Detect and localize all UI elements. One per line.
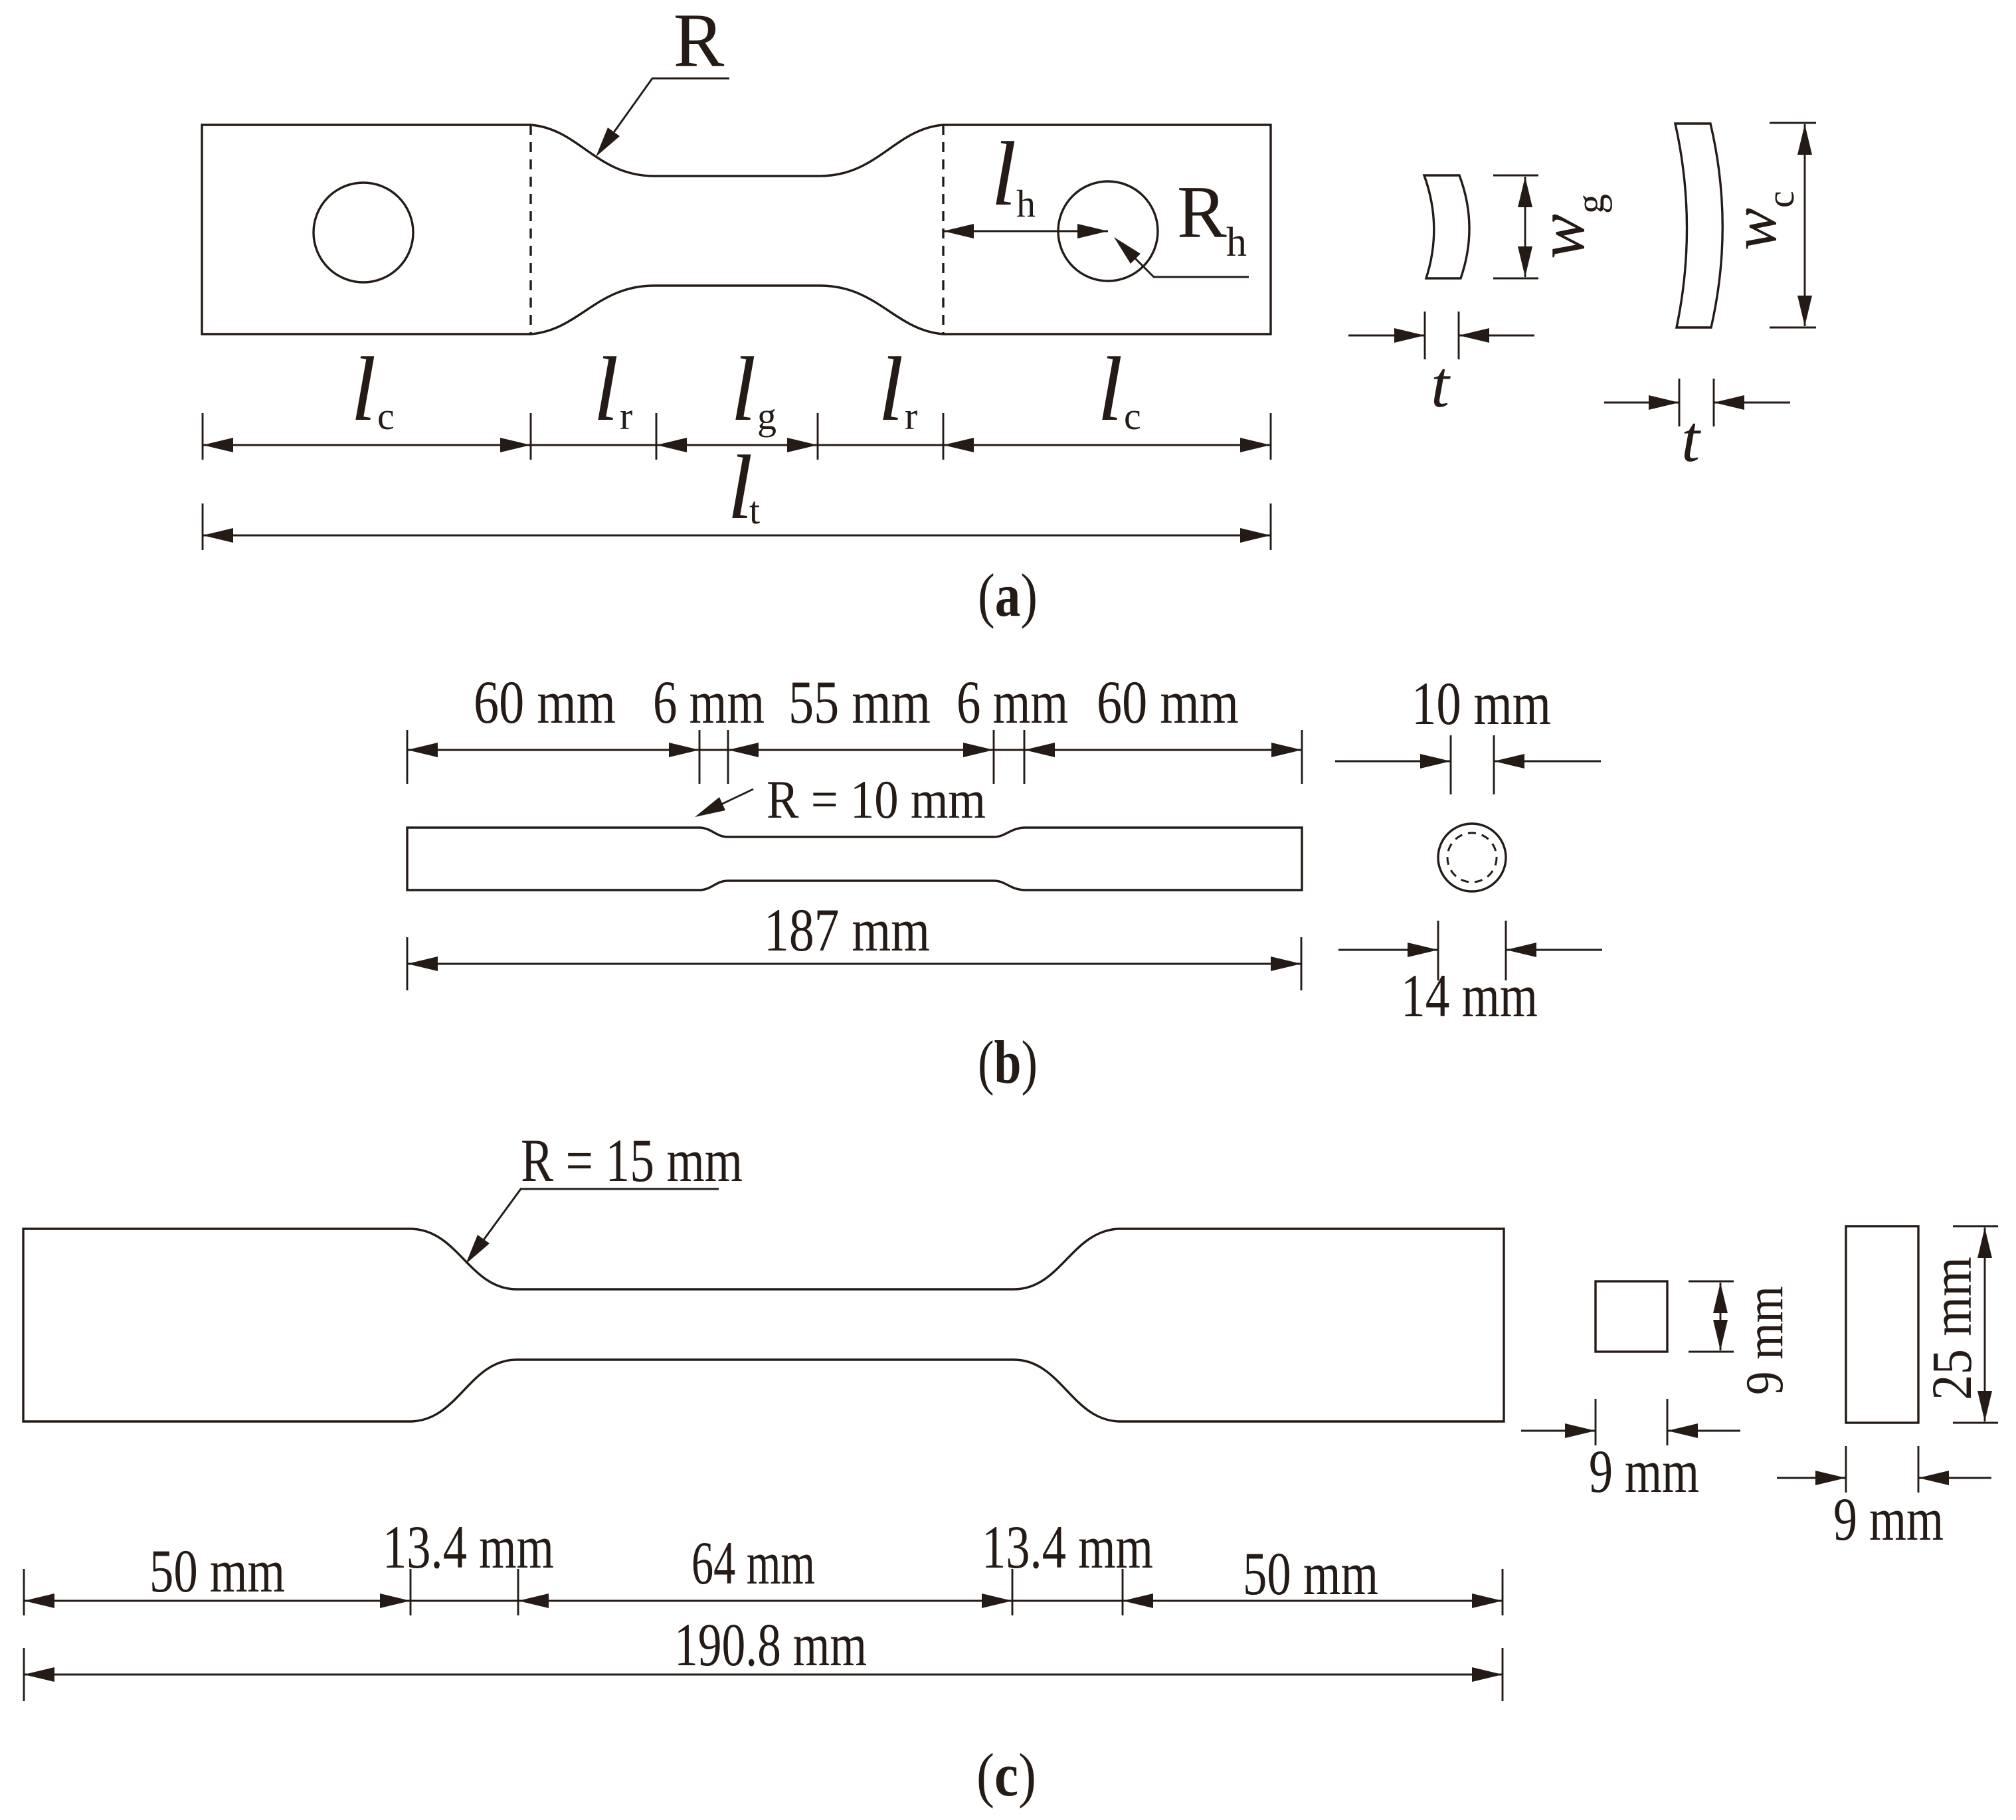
- svg-text:l: l: [731, 338, 756, 440]
- svg-text:9 mm: 9 mm: [1833, 1485, 1944, 1553]
- square gauge cross-section (c): [1596, 1281, 1667, 1352]
- svg-text:50 mm: 50 mm: [149, 1537, 285, 1605]
- tick (b) chain 2: [699, 730, 701, 784]
- tick w_g bottom: [1493, 278, 1538, 280]
- arrowhead l_h right: [1077, 224, 1108, 238]
- tick (c) chain 6: [1502, 1569, 1504, 1615]
- specimen (a) right grip boundary dashed line: [942, 125, 944, 334]
- tick (c) chain 3: [517, 1569, 519, 1615]
- arrowhead l_g right: [787, 438, 818, 452]
- tick (b) chain 6: [1301, 730, 1303, 784]
- svg-text:(b): (b): [978, 1028, 1038, 1096]
- dimension chain line (a): l_c, l_r, l_g, l_r, l_c: [203, 444, 1271, 446]
- arrowhead l_t left: [203, 528, 233, 543]
- svg-text:l: l: [1097, 338, 1123, 440]
- svg-text:c: c: [377, 395, 395, 438]
- tick t-gauge left: [1424, 312, 1426, 359]
- svg-text:9 mm: 9 mm: [1736, 1286, 1794, 1395]
- svg-text:t: t: [749, 489, 760, 532]
- tick 9mm-v bottom: [1689, 1351, 1734, 1353]
- arrowhead l_c right: [500, 438, 531, 452]
- arrowhead l_t right: [1240, 528, 1271, 543]
- leader line for R_h: [1119, 242, 1249, 277]
- arrowhead 9mm-r left: [1815, 1471, 1846, 1485]
- leader line for R = 10 mm: [699, 789, 753, 815]
- svg-text:t: t: [1681, 402, 1701, 476]
- svg-text:60 mm: 60 mm: [1097, 668, 1239, 736]
- arrowhead t-grip left: [1649, 395, 1679, 410]
- tick 14mm left: [1437, 921, 1439, 980]
- dimension 9 mm (rect width): [1777, 1477, 1846, 1479]
- tick 10mm right: [1493, 735, 1495, 794]
- specimen (a) dog-bone outline: [202, 125, 1271, 334]
- leader arrowhead R=10mm: [695, 797, 725, 817]
- arrowhead 64mm right: [982, 1593, 1012, 1608]
- arrowhead 50mm-2 right: [1472, 1593, 1503, 1608]
- arrowhead 60mm right: [669, 743, 699, 757]
- tick (c) chain 1: [23, 1569, 25, 1615]
- svg-text:l: l: [991, 123, 1016, 225]
- dimension t (gauge thickness): [1348, 335, 1425, 337]
- arrowhead 25mm up: [1977, 1228, 1992, 1258]
- arrowhead w_g down: [1518, 246, 1532, 277]
- svg-text:wg: wg: [1524, 194, 1612, 259]
- tick w_g top: [1493, 175, 1538, 177]
- arrowhead 190.8 right: [1472, 1667, 1503, 1682]
- tick 187mm left: [407, 937, 409, 990]
- tick 9mm-h left: [1595, 1399, 1597, 1445]
- leader line for R: [601, 78, 729, 150]
- arrowhead 64mm left: [518, 1593, 549, 1608]
- arrowhead 9mm-v down: [1713, 1320, 1728, 1350]
- arrowhead t-gauge right: [1459, 328, 1489, 343]
- svg-text:190.8 mm: 190.8 mm: [674, 1611, 867, 1679]
- svg-text:50 mm: 50 mm: [1243, 1540, 1378, 1607]
- svg-text:R = 10 mm: R = 10 mm: [767, 769, 986, 830]
- tick t-grip left: [1679, 379, 1681, 426]
- arrowhead l_g left: [656, 438, 687, 452]
- tick 25mm bottom: [1953, 1422, 1998, 1424]
- tick (b) chain 1: [407, 730, 409, 784]
- dimension l_t (total length): [203, 535, 1271, 537]
- tick (b) chain 3: [727, 730, 729, 784]
- tick (a) chain 3: [656, 413, 658, 460]
- dimension 187 mm: [407, 963, 1301, 965]
- tick (b) chain 5: [1024, 730, 1026, 784]
- svg-text:64 mm: 64 mm: [691, 1529, 815, 1597]
- tick 9mm-r right: [1918, 1446, 1920, 1493]
- tick (c) chain 5: [1122, 1569, 1124, 1615]
- tick 190.8 left: [23, 1648, 25, 1701]
- svg-text:13.4 mm: 13.4 mm: [383, 1513, 554, 1581]
- tick 14mm right: [1505, 921, 1507, 980]
- svg-text:9 mm: 9 mm: [1589, 1437, 1699, 1505]
- svg-text:r: r: [620, 395, 632, 438]
- leader arrowhead R: [596, 128, 620, 157]
- svg-text:6 mm: 6 mm: [653, 668, 765, 736]
- tick 9mm-h right: [1667, 1399, 1669, 1445]
- arrowhead 187mm right: [1271, 956, 1301, 971]
- specimen (c) outline: [23, 1229, 1504, 1421]
- svg-text:60 mm: 60 mm: [474, 668, 616, 736]
- svg-text:l: l: [351, 338, 376, 440]
- arrowhead 10mm left: [1420, 754, 1451, 769]
- arrowhead 14mm right: [1506, 943, 1536, 957]
- svg-text:R: R: [674, 0, 725, 82]
- specimen (a) left grip boundary dashed line: [529, 125, 531, 334]
- arrowhead 50mm right: [380, 1593, 411, 1608]
- tick (c) chain 4: [1012, 1569, 1014, 1615]
- dimension t (grip thickness): [1604, 402, 1679, 404]
- arrowhead l_h left: [943, 224, 974, 238]
- arrowhead 9mm-v up: [1713, 1283, 1728, 1313]
- machined gauge dashed inner circle: [1447, 833, 1497, 882]
- arrowhead 55mm left: [728, 743, 759, 757]
- rectangular grip cross-section (c): [1846, 1226, 1918, 1423]
- tick 187mm right: [1301, 937, 1303, 990]
- svg-text:55 mm: 55 mm: [788, 668, 931, 736]
- svg-text:l: l: [878, 338, 903, 440]
- arrowhead 60mm-2 left: [1024, 743, 1055, 757]
- svg-text:h: h: [1016, 182, 1036, 225]
- arrowhead 9mm-h right: [1667, 1423, 1698, 1438]
- tick 9mm-v top: [1689, 1281, 1734, 1283]
- svg-text:187 mm: 187 mm: [764, 896, 930, 964]
- tick w_c bottom: [1770, 327, 1816, 329]
- round bar cross-section (b) outer circle: [1438, 824, 1506, 891]
- svg-text:10 mm: 10 mm: [1412, 670, 1551, 737]
- tick 190.8 right: [1502, 1648, 1504, 1701]
- svg-text:R = 15 mm: R = 15 mm: [521, 1127, 743, 1194]
- svg-text:14 mm: 14 mm: [1401, 962, 1538, 1030]
- tick (a) chain 2: [530, 413, 532, 460]
- svg-text:(c): (c): [976, 1741, 1036, 1809]
- tick t-gauge right: [1458, 312, 1460, 359]
- arrowhead 9mm-r right: [1918, 1471, 1949, 1485]
- arrowhead l_c left: [203, 438, 233, 452]
- arrowhead 60mm left: [407, 743, 438, 757]
- tick l_t right: [1270, 503, 1272, 550]
- arrowhead 14mm left: [1408, 943, 1438, 957]
- leader line for R = 15 mm: [470, 1189, 719, 1258]
- arrowhead 9mm-h left: [1565, 1423, 1596, 1438]
- grip cross-section strip (a): [1675, 124, 1722, 327]
- svg-text:t: t: [1431, 347, 1451, 421]
- tick (a) chain 5: [943, 413, 945, 460]
- svg-text:g: g: [757, 395, 777, 438]
- svg-text:wc: wc: [1718, 191, 1802, 250]
- svg-text:6 mm: 6 mm: [957, 668, 1068, 736]
- tick (b) chain 4: [993, 730, 995, 784]
- tick (a) chain 1: [202, 413, 204, 460]
- arrowhead w_c up: [1797, 124, 1812, 155]
- specimen (b) outline: [407, 828, 1302, 890]
- tick (a) chain 4: [817, 413, 819, 460]
- tick (c) chain 2: [410, 1569, 412, 1615]
- svg-text:l: l: [593, 338, 618, 440]
- dimension chain line (b): 60/6/55/6/60 mm: [407, 749, 1302, 751]
- arrowhead 50mm-2 left: [1123, 1593, 1153, 1608]
- arrowhead t-gauge left: [1394, 328, 1425, 343]
- leader arrowhead R_h: [1114, 237, 1141, 264]
- specimen (a) right pin hole: [1058, 181, 1158, 281]
- dimension 190.8 mm: [24, 1674, 1503, 1676]
- gauge cross-section strip (a): [1424, 175, 1469, 278]
- arrowhead w_g up: [1518, 177, 1532, 207]
- tick 25mm top: [1953, 1226, 1998, 1228]
- dimension 10 mm (gauge dia): [1335, 761, 1451, 763]
- arrowhead 25mm down: [1977, 1391, 1992, 1421]
- dimension 9 mm (square width): [1521, 1430, 1596, 1432]
- tick t-grip right: [1713, 379, 1715, 426]
- arrowhead 10mm right: [1494, 754, 1524, 769]
- svg-text:c: c: [1124, 395, 1141, 438]
- arrowhead l_c2 left: [943, 438, 974, 452]
- arrowhead 190.8 left: [24, 1667, 54, 1682]
- arrowhead l_c2 right: [1240, 438, 1271, 452]
- arrowhead 187mm left: [407, 956, 438, 971]
- tick 9mm-r left: [1845, 1446, 1847, 1493]
- svg-text:25 mm: 25 mm: [1920, 1257, 1983, 1400]
- svg-text:h: h: [1226, 220, 1247, 265]
- tick l_t left: [202, 503, 204, 550]
- arrowhead w_c down: [1797, 296, 1812, 326]
- svg-text:R: R: [1177, 171, 1227, 254]
- arrowhead 55mm right: [963, 743, 994, 757]
- arrowhead t-grip right: [1714, 395, 1744, 410]
- dimension 14 mm (bar dia): [1338, 949, 1438, 951]
- dimension l_h (hole distance): [943, 230, 1108, 232]
- tick (a) chain 6: [1270, 413, 1272, 460]
- svg-text:(a): (a): [978, 561, 1038, 629]
- dimension chain line (c): 50/13.4/64/13.4/50 mm: [24, 1600, 1503, 1602]
- specimen (a) left pin hole: [314, 183, 413, 282]
- arrowhead 50mm left: [24, 1593, 54, 1608]
- arrowhead 60mm-2 right: [1271, 743, 1302, 757]
- svg-text:13.4 mm: 13.4 mm: [982, 1513, 1153, 1581]
- tick 10mm left: [1450, 735, 1452, 794]
- leader arrowhead R=15mm: [466, 1235, 490, 1264]
- svg-text:r: r: [905, 395, 917, 438]
- tick w_c top: [1770, 122, 1816, 124]
